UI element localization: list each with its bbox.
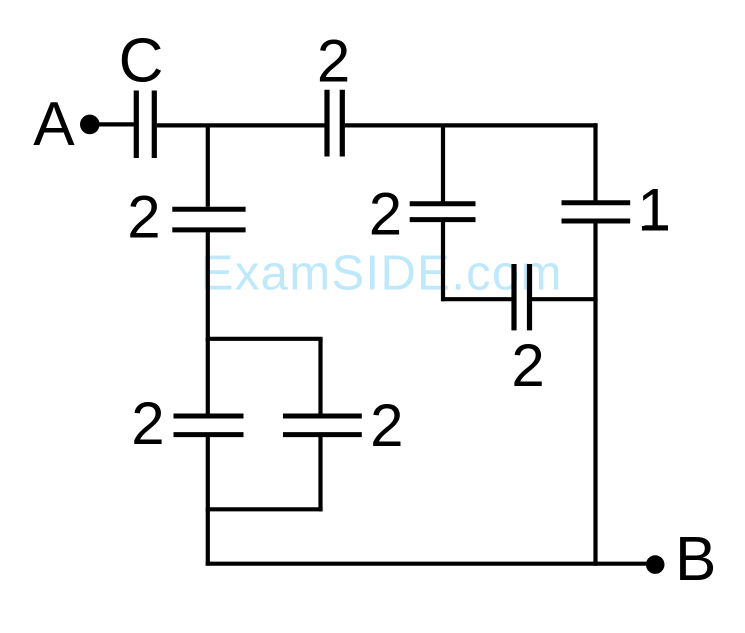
capacitor 2 parallel left [174,416,244,435]
wire C to top capacitor 2 (through junction) [157,123,325,127]
terminal A dot [80,115,100,135]
wire parallel box top [206,337,323,341]
svg-text:2: 2 [127,183,160,250]
wire top capacitor 2 to top-right corner [345,123,598,127]
svg-text:C: C [119,26,164,95]
wire bottom rail [206,562,647,566]
wire parallel box left vertical upper [206,339,210,414]
wire parallel box bottom [206,507,323,511]
wire right vertical upper [593,123,597,200]
wire middle branch down to mid rail [441,222,445,301]
capacitor 1 right branch [562,203,631,221]
capacitor 2 parallel right [283,416,362,435]
wire parallel box right vertical lower [318,437,322,511]
capacitor 2 left vertical branch [172,209,245,230]
wire mid rail right segment [532,297,598,301]
wire junction down at x=207 [206,125,210,206]
capacitor 2 top [327,90,342,157]
capacitor C [136,91,154,159]
svg-text:2: 2 [511,332,544,399]
wire A to capacitor C [98,122,136,126]
wire mid rail left segment [441,297,512,301]
svg-text:2: 2 [317,27,350,94]
svg-text:2: 2 [370,392,403,459]
wire left branch down to parallel box [206,232,210,341]
svg-text:1: 1 [637,176,670,243]
svg-text:2: 2 [369,181,402,248]
capacitor 2 mid horizontal [514,264,530,330]
terminal B dot [646,555,665,574]
wire parallel box right vertical upper [318,339,322,414]
wire junction down at x=443 [441,125,445,202]
capacitor 2 middle branch [410,204,476,220]
svg-text:ExamSIDE.com: ExamSIDE.com [201,247,563,301]
label 1 right branch [637,176,670,243]
wire parallel box left vertical lower to bottom rail [206,437,210,566]
svg-text:B: B [675,525,716,594]
svg-text:A: A [33,90,75,159]
wire right vertical lower [593,223,597,566]
svg-text:2: 2 [131,390,164,457]
